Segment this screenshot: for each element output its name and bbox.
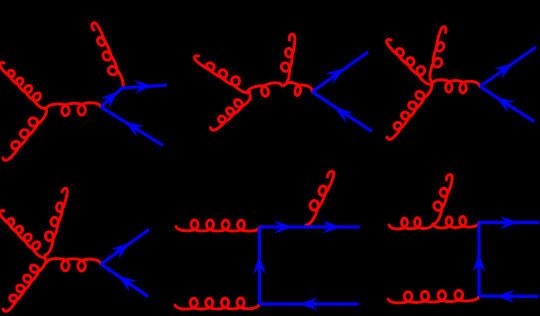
gluon g2 incoming (D2 lower-left) bbox=[211, 95, 251, 130]
arrow on vertical quark (D5) bbox=[253, 256, 266, 274]
quark line (D6 top horizontal) bbox=[479, 221, 539, 224]
gluon propagator right half (D2) bbox=[284, 83, 313, 96]
gluon incoming right part (D6 top) bbox=[433, 216, 479, 228]
arrow on antiquark (D3) bbox=[496, 97, 515, 113]
arrow on quark right (D5 top) bbox=[323, 221, 342, 234]
arrow on quark (D2) bbox=[325, 68, 344, 84]
gluon g1 incoming (D2 upper-left) bbox=[194, 56, 250, 93]
gluon g2 incoming (D1 lower-left) bbox=[3, 109, 47, 160]
gluon incoming left part (D6 top) bbox=[389, 218, 433, 229]
gluon g1 incoming (D3 upper-left) bbox=[387, 39, 432, 84]
gluon propagator (D4 horizontal) bbox=[46, 259, 101, 271]
gluon radiated from quark (D5 up) bbox=[306, 171, 334, 225]
antiquark line (D6 bottom horizontal) bbox=[479, 294, 539, 298]
arrow on antiquark (D6 bottom) bbox=[496, 290, 514, 303]
gluon incoming (D5 top) bbox=[176, 220, 260, 231]
arrow on antiquark (D1) bbox=[125, 122, 144, 137]
arrow on antiquark (D4) bbox=[118, 276, 137, 292]
arrow on quark (D6 top) bbox=[500, 216, 518, 229]
gluon propagator left half (D2) bbox=[247, 83, 282, 96]
gluon propagator (D1 horizontal) bbox=[46, 103, 101, 116]
gluon g1 incoming (D4 upper-left) bbox=[0, 211, 45, 258]
arrow on quark inner segment (D1) bbox=[100, 91, 118, 108]
arrow on antiquark (D5 bottom) bbox=[299, 298, 318, 311]
arrow on quark outer segment (D1) bbox=[134, 80, 153, 93]
quark line (D2 upper, q) bbox=[313, 52, 369, 92]
arrow on vertical quark (D6) bbox=[473, 253, 486, 272]
gluon g2 incoming (D3 lower-left) bbox=[387, 84, 432, 139]
quark line (D1 upper, q) bbox=[101, 85, 167, 107]
antiquark line (D1 lower, qbar) bbox=[101, 107, 163, 146]
gluon g1 incoming (D1 upper-left) bbox=[0, 63, 46, 109]
quark line (D5 top horizontal) bbox=[260, 225, 360, 228]
gluon radiated from quark (D1 up) bbox=[92, 23, 123, 88]
arrow on quark left (D5 top) bbox=[274, 221, 293, 234]
antiquark line (D3 lower, qbar) bbox=[480, 87, 534, 122]
arrow on quark (D3) bbox=[494, 63, 513, 79]
gluon radiated (D3 up) bbox=[430, 27, 446, 82]
quark propagator (D5 vertical) bbox=[258, 227, 261, 304]
antiquark line (D2 lower, qbar) bbox=[313, 92, 373, 132]
quark line (D3 upper, q) bbox=[480, 47, 536, 87]
gluon radiated (D2 up) bbox=[281, 34, 295, 86]
gluon g2 incoming (D4 lower-left) bbox=[3, 258, 46, 311]
quark line (D4 upper, q) bbox=[101, 230, 149, 265]
quark propagator (D6 vertical) bbox=[477, 223, 480, 297]
gluon radiated (D4 up) bbox=[45, 188, 67, 255]
arrow on antiquark (D2) bbox=[334, 107, 353, 123]
gluon incoming (D6 bottom) bbox=[388, 290, 479, 303]
gluon propagator (D3 horizontal) bbox=[432, 80, 480, 93]
antiquark line (D4 lower, qbar) bbox=[101, 264, 148, 297]
gluon radiated (D6 up) bbox=[433, 175, 452, 224]
gluon incoming (D5 bottom) bbox=[175, 298, 259, 309]
antiquark line (D5 bottom horizontal) bbox=[259, 302, 358, 305]
arrow on quark (D4) bbox=[111, 243, 130, 259]
